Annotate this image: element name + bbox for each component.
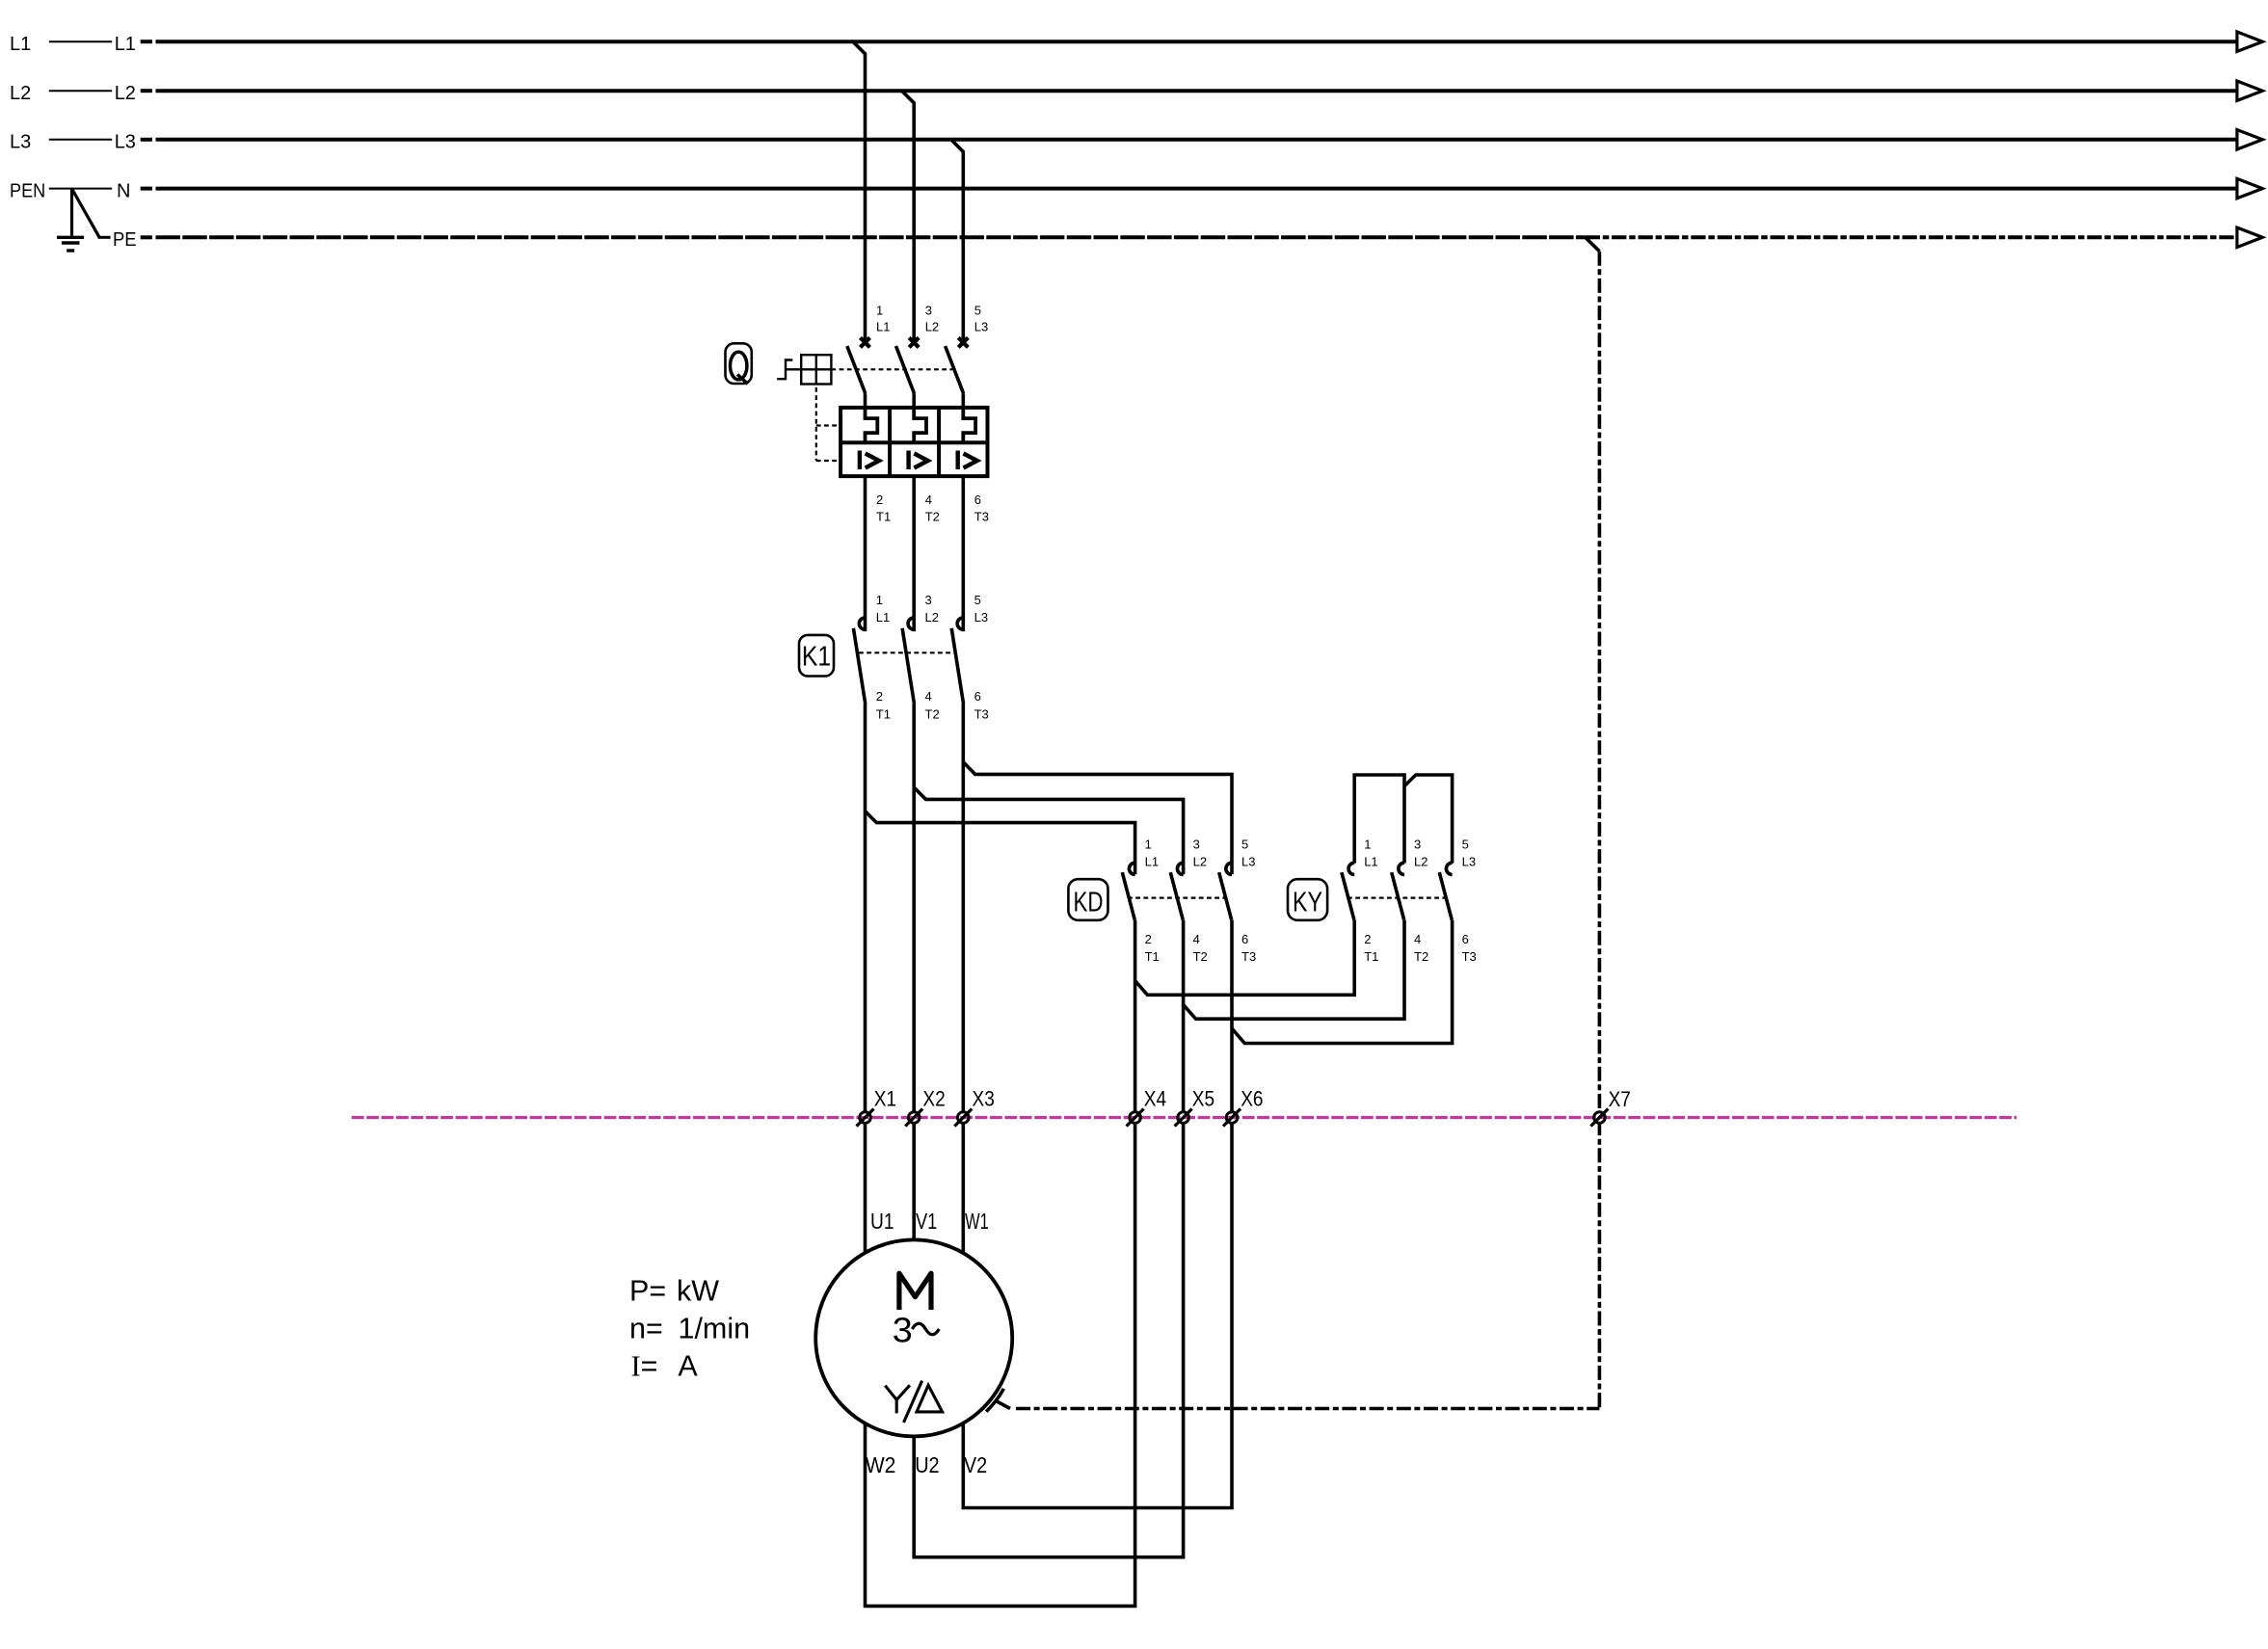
svg-text:4: 4 — [1193, 932, 1200, 946]
wire K1 pole 2 to X2 and motor V1 — [912, 705, 916, 1240]
svg-text:5: 5 — [974, 303, 981, 317]
wire branch K1 pole 2 to KD pole 2 — [914, 787, 1183, 874]
svg-text:L3: L3 — [10, 132, 31, 153]
svg-text:6: 6 — [1241, 932, 1248, 946]
contactor KD pole 2 pin labels — [1193, 838, 1208, 964]
wire PEN earth drop — [72, 189, 111, 238]
breaker Q thermal release pole 2 — [914, 408, 926, 442]
breaker Q thermal release pole 3 — [963, 408, 975, 442]
svg-text:3: 3 — [1193, 838, 1200, 852]
contactor KD pole 2 contact — [1170, 863, 1183, 919]
contactor KD label — [1068, 879, 1107, 920]
contactor K1 pole 1 contact — [853, 618, 865, 705]
svg-text:L1: L1 — [115, 34, 136, 55]
svg-text:1/min: 1/min — [679, 1312, 751, 1344]
wire KD pole 3 branch to KY pole 3 — [1232, 920, 1453, 1044]
node PEN source label — [10, 180, 130, 201]
motor 3~ label — [893, 1311, 940, 1350]
terminal X3 — [954, 1086, 995, 1126]
svg-text:5: 5 — [974, 593, 981, 607]
contactor KY pole 1 contact — [1342, 863, 1354, 919]
breaker Q pole 3 pin labels — [974, 303, 989, 523]
svg-text:W1: W1 — [965, 1209, 989, 1234]
wire KD pole 2 output to X5 — [1182, 920, 1186, 1532]
breaker Q pole 2 pin labels — [925, 303, 940, 523]
contactor K1 linkage — [859, 652, 954, 653]
svg-text:L2: L2 — [1414, 855, 1428, 869]
wire mounting plate boundary (pink) — [352, 1116, 2016, 1119]
svg-text:X7: X7 — [1609, 1087, 1631, 1111]
motor M circle — [815, 1239, 1012, 1436]
svg-text:1: 1 — [876, 303, 883, 317]
contactor K1 pole 3 contact — [951, 618, 963, 705]
arrow PE — [2237, 227, 2262, 247]
svg-text:3: 3 — [925, 593, 932, 607]
svg-text:A: A — [678, 1350, 698, 1383]
svg-text:N: N — [117, 180, 130, 201]
breaker Q pole 3 contact — [946, 337, 969, 408]
breaker Q magnetic release I> pole 2 — [909, 451, 928, 470]
svg-text:L3: L3 — [1462, 855, 1476, 869]
svg-text:L2: L2 — [10, 83, 31, 104]
svg-text:P=: P= — [629, 1274, 666, 1307]
breaker Q label — [726, 343, 752, 384]
wire Q to K1 pole 3 — [961, 476, 965, 631]
svg-text:2: 2 — [1364, 932, 1371, 946]
svg-text:6: 6 — [1462, 932, 1469, 946]
svg-text:3: 3 — [925, 303, 932, 317]
wire Q to K1 pole 2 — [912, 476, 916, 631]
svg-text:L3: L3 — [115, 132, 136, 153]
wire L2 drop to Q — [902, 91, 915, 342]
svg-text:3: 3 — [893, 1311, 913, 1350]
breaker Q magnetic release I> pole 3 — [958, 451, 977, 470]
breaker Q linkage dashes — [816, 369, 952, 461]
arrow L3 — [2237, 130, 2262, 149]
svg-text:L3: L3 — [1241, 855, 1255, 869]
svg-text:T2: T2 — [925, 510, 940, 524]
svg-text:KD: KD — [1074, 887, 1104, 918]
wire KD pole 2 branch to KY pole 2 — [1184, 920, 1404, 1020]
contactor KD pole 1 pin labels — [1145, 838, 1160, 964]
svg-text:2: 2 — [876, 492, 883, 507]
motor M letter — [899, 1273, 931, 1310]
svg-text:T2: T2 — [925, 706, 940, 721]
svg-text:X5: X5 — [1192, 1086, 1214, 1110]
contactor KY pole 2 contact — [1392, 863, 1404, 919]
terminal X7 — [1590, 1087, 1631, 1127]
contactor KD linkage — [1128, 896, 1225, 898]
ground — [57, 237, 84, 251]
contactor K1 pole 1 pin labels — [876, 593, 891, 721]
svg-text:X2: X2 — [922, 1086, 945, 1110]
svg-text:PE: PE — [113, 229, 137, 251]
contactor KD pole 1 contact — [1122, 863, 1134, 919]
svg-text:4: 4 — [1414, 932, 1421, 946]
wire L1 drop to Q — [853, 41, 866, 342]
svg-text:1: 1 — [1364, 838, 1371, 852]
svg-text:2: 2 — [876, 689, 883, 704]
terminal white masks — [860, 1112, 1605, 1124]
wire L1 bus — [141, 40, 2237, 43]
svg-text:4: 4 — [925, 492, 932, 507]
wire K1 pole 3 to X3 and motor W1 — [961, 705, 965, 1253]
wire PE bus — [141, 235, 2237, 239]
breaker Q pole 2 contact — [896, 337, 920, 408]
contactor KD pole 3 pin labels — [1241, 838, 1256, 964]
wire Q to K1 pole 1 — [864, 476, 867, 631]
svg-text:U2: U2 — [915, 1452, 939, 1477]
wire L2 bus — [141, 89, 2237, 93]
wire KD pole 1 output to X4 — [1134, 920, 1137, 1581]
terminal X4 — [1127, 1086, 1167, 1126]
svg-text:1: 1 — [876, 593, 883, 607]
svg-text:T1: T1 — [1145, 949, 1160, 964]
motor PE hook — [986, 1389, 1010, 1412]
terminal X2 — [905, 1086, 946, 1126]
svg-text:L3: L3 — [974, 320, 988, 334]
svg-text:L1: L1 — [876, 610, 890, 625]
wire branch K1 pole 3 to KD pole 3 — [963, 762, 1232, 875]
terminal X5 — [1175, 1086, 1215, 1126]
wire motor U2 down — [914, 1436, 1183, 1556]
contactor K1 pole 3 pin labels — [974, 593, 989, 721]
wire KD pole 3 output to X6 — [1230, 920, 1234, 1484]
wire motor V2 down — [963, 1423, 1232, 1508]
svg-text:L1: L1 — [1145, 855, 1159, 869]
svg-text:1: 1 — [1145, 838, 1152, 852]
svg-text:X1: X1 — [874, 1086, 896, 1110]
breaker Q pole 1 pin labels — [876, 303, 891, 523]
svg-text:L2: L2 — [115, 83, 136, 104]
svg-text:X4: X4 — [1144, 1086, 1166, 1110]
wire KY star bus — [1354, 775, 1452, 864]
motor rating text block — [629, 1274, 750, 1382]
svg-text:T3: T3 — [1462, 949, 1477, 964]
contactor KD pole 3 contact — [1219, 863, 1232, 919]
svg-text:n=: n= — [629, 1312, 663, 1344]
contactor KY linkage — [1347, 896, 1446, 898]
svg-text:L2: L2 — [1193, 855, 1207, 869]
arrow L1 — [2237, 32, 2262, 51]
svg-text:5: 5 — [1241, 838, 1248, 852]
svg-text:5: 5 — [1462, 838, 1469, 852]
arrow N — [2237, 178, 2262, 198]
svg-text:X3: X3 — [973, 1086, 995, 1110]
svg-text:T2: T2 — [1193, 949, 1208, 964]
breaker Q actuator — [777, 355, 831, 384]
contactor KY pole 2 pin labels — [1414, 838, 1428, 964]
motor Y/D symbol — [885, 1381, 942, 1423]
breaker Q magnetic release I> pole 1 — [860, 451, 879, 470]
contactor K1 pole 2 contact — [902, 618, 914, 705]
svg-text:6: 6 — [974, 689, 981, 704]
svg-text:PEN: PEN — [10, 180, 45, 201]
svg-text:T2: T2 — [1414, 949, 1428, 964]
wire KD pole 1 branch to KY pole 1 — [1135, 920, 1355, 996]
wire L3 drop to Q — [951, 140, 964, 342]
svg-text:L2: L2 — [925, 320, 939, 334]
wire motor W2 down — [866, 1423, 1135, 1606]
svg-text:T1: T1 — [876, 706, 891, 721]
contactor KY pole 3 pin labels — [1462, 838, 1477, 964]
svg-text:K1: K1 — [802, 641, 831, 672]
svg-text:V2: V2 — [964, 1452, 987, 1477]
arrow L2 — [2237, 81, 2262, 100]
svg-text:U1: U1 — [870, 1209, 894, 1234]
svg-text:I=: I= — [631, 1350, 658, 1383]
contactor KY pole 3 contact — [1439, 863, 1452, 919]
svg-text:L1: L1 — [876, 320, 890, 334]
node L3 source label — [10, 132, 136, 153]
breaker Q overload box — [840, 408, 987, 476]
contactor K1 pole 2 pin labels — [925, 593, 940, 721]
wire branch K1 pole 1 to KD pole 1 — [866, 811, 1135, 875]
svg-text:T3: T3 — [974, 510, 989, 524]
svg-text:T3: T3 — [974, 706, 989, 721]
svg-text:T1: T1 — [1364, 949, 1378, 964]
svg-text:2: 2 — [1145, 932, 1152, 946]
node L2 source label — [10, 83, 136, 104]
svg-text:KY: KY — [1293, 887, 1322, 918]
svg-text:L3: L3 — [974, 610, 988, 625]
svg-text:T1: T1 — [876, 510, 891, 524]
svg-text:X6: X6 — [1241, 1086, 1263, 1110]
svg-text:L2: L2 — [925, 610, 939, 625]
breaker Q pole 1 contact — [847, 337, 870, 408]
wire PE branch to X7 — [1016, 237, 1599, 1408]
svg-text:4: 4 — [925, 689, 932, 704]
svg-text:kW: kW — [677, 1274, 719, 1307]
wire N bus — [141, 187, 2237, 191]
terminal X6 — [1223, 1086, 1264, 1126]
node L1 source label — [10, 34, 136, 55]
contactor KY pole 1 pin labels — [1364, 838, 1378, 964]
contactor K1 label — [799, 635, 834, 677]
svg-text:L1: L1 — [10, 34, 31, 55]
wire L3 bus — [141, 138, 2237, 142]
svg-text:3: 3 — [1414, 838, 1421, 852]
svg-text:6: 6 — [974, 492, 981, 507]
svg-text:W2: W2 — [866, 1452, 896, 1477]
svg-text:L1: L1 — [1364, 855, 1377, 869]
breaker Q thermal release pole 1 — [866, 408, 878, 442]
svg-text:V1: V1 — [916, 1209, 937, 1234]
svg-text:T3: T3 — [1241, 949, 1256, 964]
terminal X1 — [857, 1086, 897, 1126]
wire K1 pole 1 to X1 and motor U1 — [864, 705, 867, 1253]
contactor KY label — [1288, 879, 1327, 920]
